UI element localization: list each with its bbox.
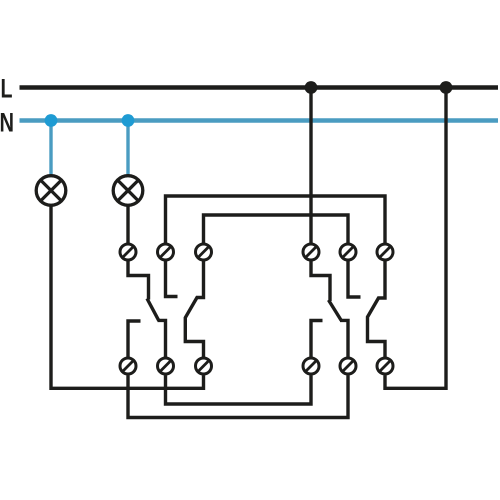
switch S1 gang A feed stub [128,261,149,300]
junction L to S2 return [440,81,453,94]
switch S2 gang A feed stub [311,261,330,301]
net label N [0,108,14,138]
junction N to lamp E1 [45,114,58,127]
switch S1 gang A blade [147,299,159,321]
wire lamp E2 to S1 upper terminal 1 [126,205,129,243]
wire N bus line [20,118,499,122]
terminal S1-5 [158,358,174,374]
terminal S2-2 [340,244,356,260]
lamp E1 [36,176,66,206]
wire lamp E1 to S1 lower terminal 3 [51,205,204,388]
switch S2 gang B feed and blade [368,261,386,357]
wire L bus line [20,85,499,89]
switch S1 gang B feed and blade [185,261,203,357]
lamp E2 [113,176,143,206]
wire lamp E2 neutral drop [126,121,129,176]
switch S2 gang B open contact stub [348,261,361,297]
switch S1 gang A output [158,320,166,357]
switch S1 gang A open contact stub [128,321,141,357]
wire S1 lower terminal 5 to S2 lower terminal 4 [166,375,312,404]
terminal S1-4 [120,358,136,374]
terminal S1-1 [120,244,136,260]
wire L return from switch S2 [385,88,446,389]
terminal S1-2 [158,244,174,260]
switch S1 gang B open contact stub [166,261,178,297]
junction L to S2 common [305,81,318,94]
terminal S2-4 [303,358,319,374]
terminal S1-3 [196,244,212,260]
wire S1 lower terminal 4 to S2 lower terminal 5 [128,375,348,417]
net label L [1,74,13,104]
switch S2 gang A output [340,320,348,357]
junction N to lamp E2 [122,114,135,127]
wire S1 upper terminal 2 to S2 upper terminal 6 [166,196,386,243]
wire lamp E1 neutral drop [49,121,52,176]
terminal S1-6 [196,358,212,374]
terminal S2-6 [377,358,393,374]
wire L feed to switch S2 common [309,88,312,244]
terminal S2-3 [377,244,393,260]
terminal S2-5 [340,358,356,374]
terminal S2-1 [303,244,319,260]
switch S2 gang A blade [329,300,342,320]
wire S1 upper terminal 3 to S2 upper terminal 5 [204,215,349,243]
svg-text:N: N [0,108,14,138]
switch S2 gang A open contact stub [311,321,323,358]
svg-text:L: L [1,74,13,104]
